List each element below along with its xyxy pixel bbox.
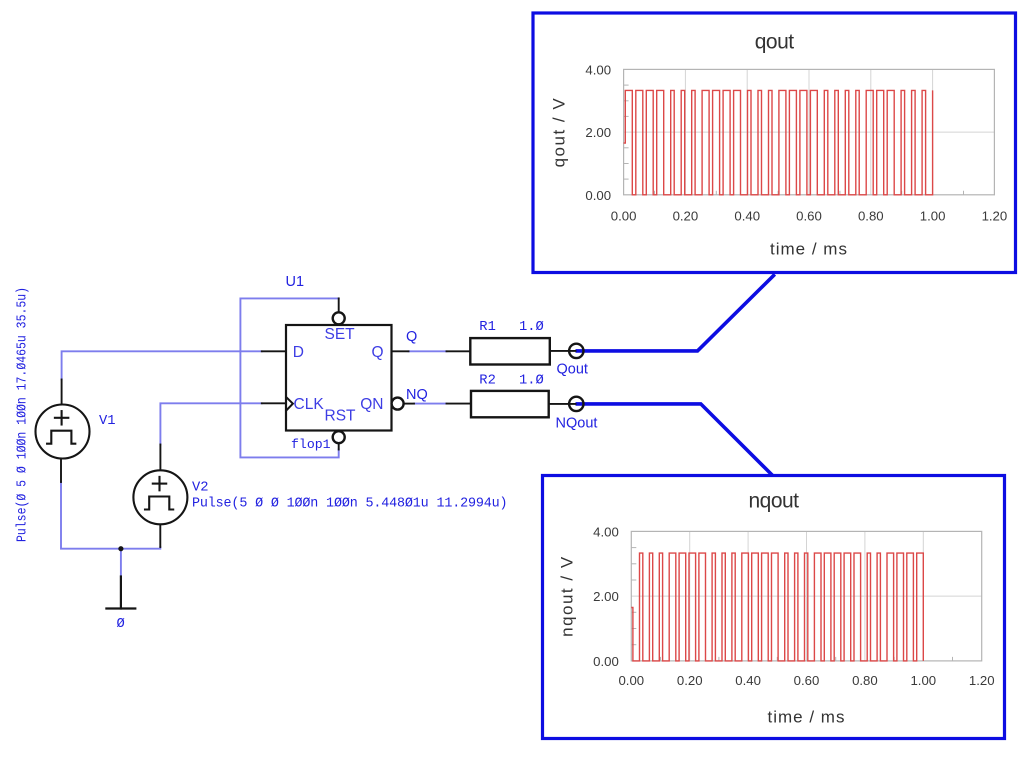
wire stub: V1 top: [61, 380, 63, 405]
svg-text:0.20: 0.20: [677, 673, 703, 688]
CLK edge triangle: [286, 397, 293, 410]
resistor R1 body: [470, 338, 550, 364]
gridlines nqout: [631, 531, 981, 661]
wire stub: R1 right to Qout terminal: [550, 350, 575, 352]
wire: QN pin to R2 (lavender mid segment): [414, 403, 447, 405]
svg-text:Q: Q: [406, 329, 417, 345]
svg-text:0.40: 0.40: [735, 673, 761, 688]
waveform trace qout: [624, 90, 933, 194]
svg-text:0.60: 0.60: [796, 209, 822, 224]
svg-text:2.00: 2.00: [593, 589, 619, 604]
y tick labels nqout: [593, 524, 619, 669]
svg-text:1.20: 1.20: [982, 209, 1008, 224]
svg-text:1.Ø: 1.Ø: [519, 373, 544, 389]
svg-text:Ø: Ø: [117, 616, 125, 632]
probe connector wire from NQout terminal to nqout panel: [576, 404, 773, 476]
plot frame nqout: [631, 531, 981, 661]
wire: SET to RST loop (lavender): [240, 298, 338, 457]
svg-text:Qout: Qout: [557, 362, 588, 378]
probe connector wire from Qout terminal to qout panel: [576, 274, 775, 351]
svg-text:U1: U1: [286, 274, 305, 290]
svg-text:4.00: 4.00: [585, 62, 611, 77]
svg-text:V2: V2: [192, 481, 209, 496]
svg-text:1.00: 1.00: [920, 209, 946, 224]
wire junction node: [118, 546, 123, 551]
svg-text:time / ms: time / ms: [768, 708, 846, 727]
minor ticks nqout: [631, 548, 952, 661]
svg-text:R2: R2: [479, 374, 496, 389]
wire stub: V1 bottom: [60, 458, 62, 482]
svg-text:0.00: 0.00: [585, 188, 611, 203]
svg-text:SET: SET: [325, 326, 356, 343]
svg-text:4.00: 4.00: [593, 524, 619, 539]
svg-text:0.60: 0.60: [794, 673, 820, 688]
svg-text:Pulse(Ø 5 Ø 1ØØn 1ØØn 17.Ø465u: Pulse(Ø 5 Ø 1ØØn 1ØØn 17.Ø465u 35.5u): [13, 287, 29, 542]
svg-text:1.Ø: 1.Ø: [519, 319, 544, 335]
svg-text:2.00: 2.00: [585, 125, 611, 140]
svg-text:qout / V: qout / V: [550, 97, 569, 168]
resistor R2 body: [471, 391, 549, 417]
wire stub: SET pin: [338, 298, 340, 311]
x tick labels nqout: [618, 673, 994, 688]
svg-text:qout: qout: [755, 30, 795, 53]
svg-text:time / ms: time / ms: [770, 240, 848, 259]
RST inversion bubble: [333, 431, 345, 443]
svg-text:0.80: 0.80: [858, 209, 884, 224]
svg-text:RST: RST: [325, 408, 357, 425]
plot panel qout: border box: [533, 13, 1016, 273]
wire stub: R2 right to NQout terminal: [549, 403, 576, 405]
svg-text:0.20: 0.20: [673, 209, 699, 224]
plot panel nqout: border box: [543, 476, 1005, 739]
svg-text:0.00: 0.00: [611, 209, 637, 224]
wire: junction to ground (lavender): [120, 549, 122, 577]
minor ticks qout: [624, 85, 964, 195]
ground symbol: [106, 577, 135, 609]
output terminal Qout: [569, 344, 583, 358]
wire: V1 bottom to ground junction (lavender): [61, 482, 160, 549]
wire stub: D pin: [262, 350, 286, 352]
pulse voltage source V2: [133, 470, 187, 524]
D flip-flop U1 body: [286, 325, 392, 431]
wire stub: V2 top: [159, 445, 161, 471]
QN inversion bubble: [392, 398, 404, 410]
wire stub: CLK pin: [262, 402, 286, 404]
SET inversion bubble: [333, 312, 345, 324]
wire: V2 plus terminal to CLK pin (lavender): [160, 403, 261, 444]
svg-text:0.40: 0.40: [734, 209, 760, 224]
wire stub: R2 left: [447, 403, 472, 405]
gridlines qout: [624, 69, 995, 194]
svg-text:nqout / V: nqout / V: [557, 555, 576, 637]
svg-text:V1: V1: [99, 414, 116, 429]
x tick labels qout: [611, 209, 1007, 224]
svg-text:Q: Q: [371, 344, 383, 361]
output terminal NQout: [569, 397, 583, 411]
svg-text:NQout: NQout: [556, 415, 598, 431]
waveform trace nqout: [631, 553, 923, 661]
wire: V1 plus terminal to D pin (lavender): [62, 351, 262, 379]
wire stub: Q pin: [392, 350, 409, 352]
svg-text:0.00: 0.00: [618, 673, 644, 688]
wire: Q pin to R1 (lavender mid segment): [409, 350, 447, 352]
svg-text:Pulse(5 Ø Ø 1ØØn 1ØØn 5.448Ø1u: Pulse(5 Ø Ø 1ØØn 1ØØn 5.448Ø1u 11.2994u): [192, 497, 507, 512]
svg-text:1.00: 1.00: [910, 673, 936, 688]
svg-text:flop1: flop1: [291, 437, 331, 452]
wire stub: RST pin: [338, 443, 340, 450]
svg-text:1.20: 1.20: [969, 673, 995, 688]
svg-text:CLK: CLK: [294, 396, 325, 413]
svg-text:nqout: nqout: [748, 489, 799, 512]
svg-text:R1: R1: [479, 320, 496, 335]
pulse voltage source V1: [36, 405, 90, 459]
svg-text:NQ: NQ: [406, 387, 428, 403]
svg-text:D: D: [293, 344, 304, 361]
y tick labels qout: [585, 62, 611, 202]
svg-text:0.80: 0.80: [852, 673, 878, 688]
wire stub: V2 bottom: [159, 524, 161, 547]
wire stub: R1 left: [447, 350, 471, 352]
svg-text:0.00: 0.00: [593, 654, 619, 669]
svg-text:QN: QN: [360, 396, 383, 413]
wire stub: QN pin: [404, 403, 415, 405]
plot frame qout: [624, 69, 995, 194]
